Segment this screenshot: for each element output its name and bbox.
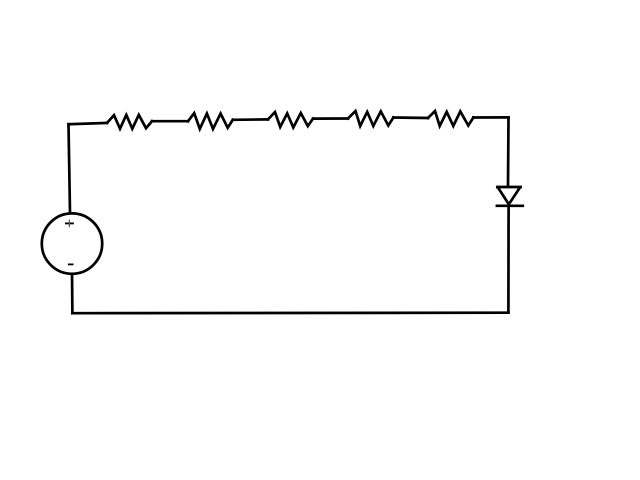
wire between R4 and R5: [393, 116, 428, 119]
resistor R1: [107, 115, 152, 129]
wire left vertical (corner to source top): [69, 124, 71, 213]
wire between R2 and R3: [233, 118, 268, 121]
voltage source V1: [42, 213, 102, 273]
minus terminal label: [69, 263, 73, 265]
resistor R3: [268, 112, 313, 128]
wire between R1 and R2: [152, 120, 188, 123]
wire top-right horizontal segment: [473, 116, 508, 119]
wire between R3 and R4: [313, 117, 348, 120]
resistor R2: [188, 113, 233, 129]
wire bottom horizontal: [72, 311, 508, 314]
wire left vertical (bottom corner to source bottom): [71, 274, 74, 313]
resistor R5: [428, 111, 473, 126]
wire top-left horizontal segment: [69, 123, 108, 124]
wire right vertical (diode cathode to bottom corner): [507, 206, 510, 313]
wire right vertical (corner to diode anode): [507, 117, 510, 186]
diode D1: [497, 187, 523, 206]
plus terminal label: [66, 220, 73, 226]
resistor R4: [348, 111, 393, 126]
